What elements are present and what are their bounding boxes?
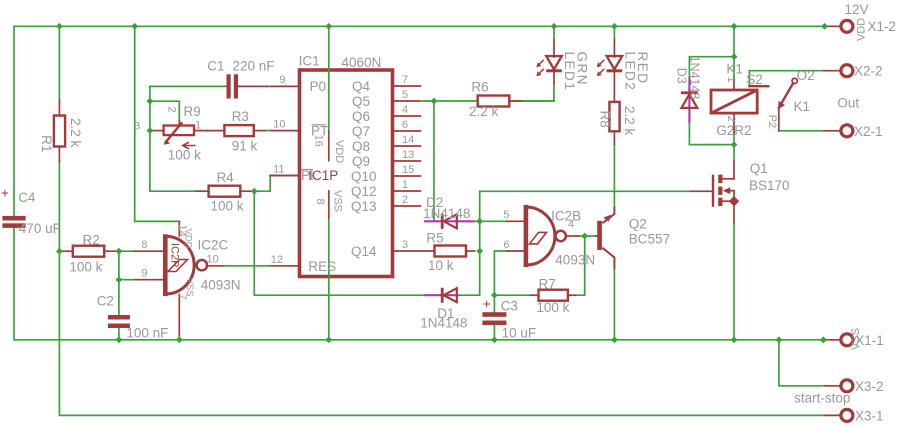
svg-text:Q12: Q12 (351, 184, 377, 199)
svg-text:IC1P: IC1P (308, 168, 338, 183)
IC2B pin stubs (507, 221, 578, 251)
wire C3 stubs (493, 295, 495, 312)
svg-text:4093N: 4093N (555, 252, 595, 267)
wire X3-2 stub (825, 385, 840, 387)
wire pin4 to Q2 base (578, 235, 597, 237)
svg-text:VSS: VSS (850, 328, 862, 350)
svg-text:3: 3 (402, 239, 408, 251)
svg-text:Q10: Q10 (351, 169, 377, 184)
svg-text:Q14: Q14 (351, 244, 377, 259)
IC1 VSS pin 8 (314, 190, 344, 218)
svg-text:10 uF: 10 uF (502, 326, 537, 341)
wire R1 branch from top rail (58, 26, 60, 101)
svg-text:BS170: BS170 (749, 178, 790, 193)
svg-text:100 k: 100 k (536, 300, 569, 315)
svg-text:R4: R4 (217, 170, 235, 185)
wire pin5 net (480, 220, 507, 222)
wire IC2C VSS to bottom rail (178, 335, 180, 340)
svg-text:+: + (483, 297, 491, 312)
svg-text:Q4: Q4 (352, 79, 371, 94)
svg-text:4060N: 4060N (342, 55, 382, 70)
op-amp U2: IC2C 4093 gate (165, 234, 207, 296)
svg-text:10 k: 10 k (428, 258, 454, 273)
wire D3 bottom link (689, 123, 734, 145)
node junctions bottom rail (116, 336, 827, 343)
svg-text:R6: R6 (471, 80, 488, 95)
capacitor C4 (1, 186, 61, 237)
svg-text:9: 9 (141, 268, 147, 280)
svg-text:470 uF: 470 uF (19, 221, 61, 236)
IC1 pin 9 P0 (272, 74, 327, 94)
wire VDD top rail (14, 26, 825, 216)
svg-text:R3: R3 (232, 109, 249, 124)
capacitor C1 (207, 59, 274, 99)
svg-text:Q8: Q8 (352, 139, 370, 154)
resistor R7 (531, 277, 576, 315)
wire Q5 junction to R6 (434, 100, 478, 102)
IC2B labels (503, 208, 595, 267)
wire R7 right riser to pin4 net (575, 236, 584, 295)
resistor R6 (469, 80, 554, 119)
svg-text:1: 1 (725, 77, 737, 83)
svg-text:K1: K1 (726, 61, 743, 76)
wire IC1 VSS feed through body (328, 218, 330, 340)
svg-text:1N4148: 1N4148 (688, 56, 702, 100)
connector X2-1 (841, 124, 883, 139)
svg-text:5: 5 (503, 209, 509, 221)
svg-text:R2: R2 (83, 233, 100, 248)
svg-text:C4: C4 (18, 190, 36, 205)
svg-text:2: 2 (166, 107, 178, 113)
wire X2-2 net from contact S2 (749, 71, 824, 86)
svg-text:VDD: VDD (183, 229, 194, 249)
svg-text:R5: R5 (426, 230, 443, 245)
wire IC2 VDD feed from top rail (135, 26, 180, 221)
svg-text:RED: RED (635, 52, 650, 85)
wire D3 top link (689, 57, 734, 77)
svg-text:Q9: Q9 (352, 154, 370, 169)
svg-text:13: 13 (402, 149, 414, 161)
svg-text:15: 15 (402, 164, 414, 176)
wire R1 bottom to R2 junction down to X3-1 rail (59, 161, 824, 415)
svg-text:1N4148: 1N4148 (423, 206, 470, 221)
svg-text:12: 12 (271, 254, 283, 266)
connector X3-2 (794, 379, 883, 406)
svg-text:6: 6 (503, 239, 509, 251)
wire relay branch from top rail (733, 26, 735, 78)
svg-text:C2: C2 (97, 294, 114, 309)
svg-text:X3-2: X3-2 (855, 379, 884, 394)
svg-text:9: 9 (279, 74, 285, 86)
wire pin6 net (494, 251, 507, 295)
IC1 pin11 stub (270, 175, 298, 177)
wire R9 wiper branch (150, 101, 179, 123)
svg-text:C1: C1 (207, 59, 224, 74)
diode D2 1N4148 (423, 195, 475, 229)
IC1 VDD pin 16 (313, 131, 346, 163)
wire R9 node: to C1 left (150, 86, 226, 130)
svg-text:D3: D3 (675, 68, 689, 84)
wire Q2 collector to VSS rail (613, 269, 615, 340)
wire gate drive to Q1 (480, 190, 691, 192)
svg-text:GRN: GRN (575, 52, 590, 87)
wire X1-2 stub (825, 25, 840, 27)
wire pin8 net R2 junction to gate (119, 250, 135, 252)
svg-text:Q7: Q7 (352, 124, 370, 139)
svg-text:2.2 k: 2.2 k (469, 104, 499, 119)
wire R6 right to LED1 (509, 83, 554, 101)
wire R4 right to pin11 (250, 176, 270, 192)
op-amp U1: IC1 4060N body (300, 70, 393, 277)
transistor Q2 BC557 (597, 207, 671, 269)
svg-text:IC1: IC1 (299, 54, 320, 69)
wire R8 bottom to Q2 emitter (613, 144, 615, 207)
connector X2-2 (841, 64, 883, 79)
svg-text:1: 1 (402, 179, 408, 191)
resistor R3 (207, 109, 266, 153)
connector X3-1 (841, 408, 884, 423)
svg-text:4: 4 (402, 104, 408, 116)
svg-text:11: 11 (273, 163, 284, 175)
svg-text:R1: R1 (39, 135, 54, 152)
svg-text:VDD: VDD (856, 18, 868, 41)
wire LED1 top stub (553, 26, 555, 41)
svg-text:P2: P2 (766, 115, 778, 128)
svg-text:14: 14 (402, 134, 414, 146)
node junctions misc (56, 53, 737, 298)
wire C3 node to R7 left (494, 294, 531, 296)
svg-text:2.2 k: 2.2 k (68, 118, 83, 148)
wire X2-1 net from pivot P2 (779, 130, 824, 132)
svg-text:1: 1 (195, 120, 201, 132)
svg-text:4093N: 4093N (201, 278, 241, 293)
wire C1 right gap (267, 85, 271, 87)
svg-text:X3-1: X3-1 (855, 408, 884, 423)
svg-text:Q1: Q1 (750, 161, 768, 176)
wire D1 right to riser (459, 294, 480, 296)
trimmer R9 (134, 104, 206, 163)
svg-text:P0: P0 (310, 79, 327, 94)
wire pin9 net (119, 279, 135, 281)
wire R3 right gap (266, 130, 272, 132)
wire R9 node down to R4 (150, 131, 196, 192)
svg-text:VSS: VSS (332, 190, 344, 212)
svg-text:G2R2: G2R2 (716, 123, 751, 138)
svg-text:S2: S2 (746, 72, 763, 87)
svg-text:R9: R9 (184, 104, 201, 119)
svg-text:6: 6 (402, 119, 408, 131)
svg-text:R7: R7 (539, 277, 556, 292)
svg-text:X2-2: X2-2 (854, 64, 883, 79)
svg-text:5: 5 (402, 89, 408, 101)
svg-text:Q6: Q6 (352, 109, 370, 124)
svg-text:10: 10 (273, 118, 285, 130)
svg-text:IC2C: IC2C (198, 238, 229, 253)
svg-text:R8: R8 (598, 111, 613, 128)
svg-text:100 k: 100 k (69, 260, 102, 275)
svg-text:O2: O2 (797, 68, 815, 83)
wire X3-1 stub (825, 414, 840, 416)
svg-text:start-stop: start-stop (794, 391, 850, 406)
svg-text:X1-2: X1-2 (868, 19, 897, 34)
connector X1-1 (841, 328, 884, 350)
wire Q5 junction down to D2 (433, 101, 435, 221)
svg-text:Q5: Q5 (352, 94, 370, 109)
diode D3 1N4148 (675, 56, 702, 123)
svg-text:12V: 12V (845, 2, 869, 17)
wire C2 bottom to VSS rail (118, 328, 120, 340)
IC2C pin stubs (135, 221, 271, 335)
wire VSS bottom rail from C4 (14, 228, 823, 340)
LED2 RED (597, 40, 650, 102)
svg-text:7: 7 (176, 294, 188, 300)
wire LED2 top stub (613, 26, 615, 41)
wire Q5 net: pin to junction (419, 100, 434, 102)
svg-text:K1: K1 (794, 99, 811, 114)
transistor Q1 BS170 (691, 161, 790, 222)
node junctions top rail (56, 23, 828, 30)
IC1 pin 11 PI (270, 163, 314, 183)
wire junction chain R2/pin9/C2 (118, 251, 120, 315)
LED1 GRN (536, 40, 589, 91)
svg-text:C3: C3 (501, 299, 518, 314)
resistor R8 (598, 102, 638, 144)
op-amp U3: IC2B 4093 gate (526, 205, 566, 267)
svg-text:16: 16 (313, 135, 325, 147)
wire IC1 VDD feed through body (328, 26, 330, 131)
svg-text:IC2B: IC2B (551, 208, 581, 223)
svg-text:+: + (1, 186, 9, 201)
wire Q1 source to VSS rail (733, 222, 735, 340)
wire X1-1 stub (823, 339, 839, 341)
IC1 pin 10 PT (272, 118, 329, 138)
wire R4 junction down to D1 line to R7 (254, 191, 424, 295)
svg-text:100 nF: 100 nF (126, 326, 168, 341)
resistor R5 (426, 230, 474, 273)
capacitor C3 (482, 297, 536, 341)
diode D1 1N4148 (420, 288, 467, 331)
svg-text:7: 7 (402, 74, 408, 86)
svg-text:X2-1: X2-1 (854, 124, 883, 139)
svg-text:1N4148: 1N4148 (420, 315, 467, 330)
svg-text:220 nF: 220 nF (233, 59, 275, 74)
IC2C labels (141, 225, 240, 300)
svg-text:10: 10 (207, 254, 219, 266)
svg-text:100 k: 100 k (211, 199, 244, 214)
IC1 right pins Q4..Q14 (351, 74, 435, 259)
IC1 pin 12 RES (270, 254, 336, 274)
resistor R4 (196, 170, 251, 214)
svg-text:VDD: VDD (333, 140, 345, 163)
svg-text:100 k: 100 k (168, 148, 201, 163)
svg-text:2.2 k: 2.2 k (622, 106, 637, 136)
relay K1 contact (746, 68, 859, 131)
svg-text:2: 2 (402, 194, 408, 206)
svg-text:Q2: Q2 (629, 217, 647, 232)
svg-text:RES: RES (308, 259, 336, 274)
svg-text:8: 8 (141, 239, 147, 251)
wire riser D2/R5/D1 vertical (479, 191, 481, 295)
svg-text:BC557: BC557 (629, 232, 670, 247)
svg-text:Q13: Q13 (351, 199, 377, 214)
capacitor C2 (97, 294, 169, 341)
svg-text:Out: Out (837, 96, 859, 111)
svg-text:IC2P: IC2P (169, 243, 181, 267)
wire D2 right gap (474, 220, 479, 222)
wire coil bottom to Q1 drain (733, 132, 735, 161)
relay K1 coil (711, 61, 757, 138)
svg-text:3: 3 (134, 121, 140, 133)
svg-text:91 k: 91 k (232, 138, 258, 153)
svg-text:2: 2 (725, 116, 737, 122)
svg-text:8: 8 (314, 199, 326, 205)
connector X1-2 (841, 2, 896, 41)
resistor R2 (59, 233, 119, 275)
resistor R1 (39, 100, 83, 162)
wire X3-2 branch (779, 340, 825, 386)
